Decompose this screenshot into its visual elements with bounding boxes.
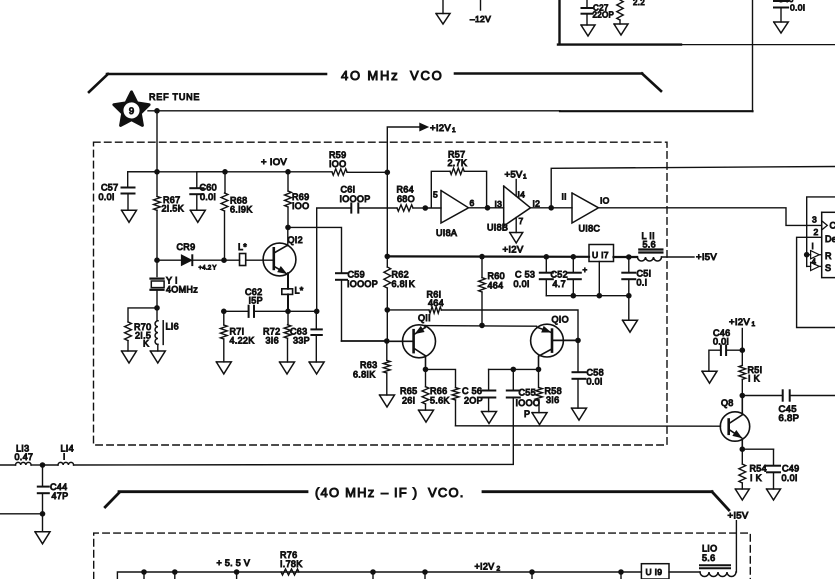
tie wire C53 C52 U17 C51 bbox=[546, 295, 629, 297]
svg-text:5.6: 5.6 bbox=[702, 553, 715, 563]
top solid box left edge bbox=[558, 0, 560, 44]
svg-text:IOO: IOO bbox=[292, 201, 309, 211]
svg-text:C: C bbox=[830, 221, 835, 231]
Q10 emitter bbox=[537, 327, 552, 332]
resistor R58 bbox=[538, 369, 540, 387]
svg-text:C52: C52 bbox=[551, 270, 568, 280]
svg-text:464: 464 bbox=[428, 298, 444, 308]
wire collector to C59 bbox=[288, 227, 342, 272]
svg-text:C 56: C 56 bbox=[462, 386, 482, 396]
svg-text:6.8I K: 6.8I K bbox=[392, 279, 416, 289]
svg-text:4OMHz: 4OMHz bbox=[166, 285, 198, 295]
svg-text:VCO.: VCO. bbox=[428, 485, 465, 500]
svg-text:1: 1 bbox=[752, 321, 756, 328]
svg-text:R66: R66 bbox=[430, 386, 447, 396]
svg-text:LIO: LIO bbox=[702, 544, 717, 554]
Q10 base wire bbox=[552, 339, 578, 341]
regulator U19 bbox=[641, 564, 669, 579]
svg-text:I K: I K bbox=[750, 473, 762, 483]
ground C46 bbox=[702, 371, 717, 383]
regulator U17 bbox=[589, 245, 614, 262]
svg-text:I4: I4 bbox=[518, 190, 526, 200]
resistor R60 bbox=[481, 257, 483, 278]
resistor R70 bbox=[128, 308, 157, 322]
wire vertical x=752 top bbox=[752, 0, 754, 112]
svg-text:REF TUNE: REF TUNE bbox=[149, 92, 200, 102]
svg-text:26I: 26I bbox=[402, 396, 415, 406]
svg-text:IOO: IOO bbox=[329, 159, 346, 169]
wire top right horizontal bbox=[681, 44, 835, 46]
capacitor C63 bbox=[315, 311, 317, 328]
svg-text:+I2V: +I2V bbox=[430, 123, 451, 134]
power pin7 +12V bbox=[515, 218, 517, 233]
ground C27 bbox=[581, 25, 595, 36]
capacitor C52 bbox=[572, 257, 574, 272]
svg-text:R60: R60 bbox=[488, 271, 505, 281]
svg-text:Q8: Q8 bbox=[721, 398, 734, 408]
Q11 emitter bbox=[414, 328, 425, 335]
svg-text:CR9: CR9 bbox=[177, 242, 196, 252]
rail +10V bbox=[128, 171, 332, 173]
svg-text:R62: R62 bbox=[392, 270, 409, 280]
svg-text:7: 7 bbox=[519, 216, 524, 226]
dashed box main VCO bbox=[94, 142, 668, 445]
wire emitter tie bbox=[489, 368, 539, 370]
svg-text:U I9: U I9 bbox=[646, 567, 663, 577]
wire Q12 emitter bbox=[287, 273, 289, 289]
resistor R59 bbox=[332, 169, 347, 175]
svg-text:+: + bbox=[583, 266, 588, 275]
svg-text:22OP: 22OP bbox=[593, 11, 615, 20]
wire R61 row bbox=[387, 309, 429, 311]
transistor Q10 bbox=[531, 324, 564, 357]
capacitor C49 bbox=[742, 448, 773, 450]
svg-text:C 53: C 53 bbox=[515, 270, 535, 280]
ground C56 bbox=[482, 412, 497, 424]
svg-text:IF ): IF ) bbox=[394, 485, 418, 500]
wire U18B out up bbox=[551, 167, 835, 208]
wire C59 to Q11 base node bbox=[342, 340, 387, 342]
svg-text:K: K bbox=[143, 339, 149, 349]
svg-text:–12V: –12V bbox=[470, 14, 491, 24]
svg-text:464: 464 bbox=[488, 281, 504, 291]
wire Q11 base bbox=[387, 340, 414, 342]
svg-text:0.0I: 0.0I bbox=[587, 377, 603, 387]
svg-text:S: S bbox=[825, 263, 831, 273]
svg-text:0.0I: 0.0I bbox=[790, 3, 805, 13]
resistor R63 bbox=[386, 341, 388, 360]
resistor R62 bbox=[384, 267, 391, 288]
wire R61 to Q10 base bbox=[441, 310, 578, 340]
svg-text:C55: C55 bbox=[519, 388, 536, 398]
svg-text:C60: C60 bbox=[200, 183, 217, 193]
crystal Y1 bbox=[156, 260, 158, 276]
svg-text:47P: 47P bbox=[52, 491, 69, 501]
svg-text:LI6: LI6 bbox=[166, 322, 179, 332]
dashed lower box bbox=[94, 533, 751, 579]
svg-text:II: II bbox=[562, 192, 567, 202]
resistor R71 bbox=[223, 311, 225, 325]
svg-text:5.6: 5.6 bbox=[643, 240, 656, 250]
svg-text:UI8A: UI8A bbox=[436, 228, 457, 238]
svg-text:UI8C: UI8C bbox=[579, 224, 601, 234]
svg-text:I K: I K bbox=[748, 374, 760, 384]
svg-text:4.7: 4.7 bbox=[553, 279, 566, 289]
ground C51 bbox=[628, 296, 630, 321]
capacitor C27 bbox=[586, 0, 588, 8]
svg-text:I.78K: I.78K bbox=[280, 559, 303, 569]
ground C57 bbox=[122, 210, 137, 222]
ground L16 bbox=[150, 351, 165, 363]
svg-text:0.0I: 0.0I bbox=[514, 279, 530, 289]
op-amp U18A bbox=[425, 207, 441, 209]
svg-text:R65: R65 bbox=[400, 386, 417, 396]
resistor R68 bbox=[224, 172, 226, 193]
svg-text:(4O MHz: (4O MHz bbox=[315, 485, 375, 500]
wire emitter row Q11-Q10 bbox=[425, 325, 537, 328]
capacitor C53 bbox=[545, 257, 547, 272]
svg-text:IOOOP: IOOOP bbox=[340, 194, 371, 204]
svg-text:IO: IO bbox=[600, 196, 610, 206]
svg-text:1: 1 bbox=[452, 127, 456, 134]
svg-text:L*: L* bbox=[295, 286, 304, 296]
svg-text:QII: QII bbox=[418, 313, 431, 323]
svg-text:+ IOV: + IOV bbox=[261, 157, 287, 168]
svg-text:QIO: QIO bbox=[552, 315, 569, 325]
svg-text:9: 9 bbox=[129, 106, 134, 117]
inductor L16 bbox=[156, 308, 158, 321]
svg-text:R64: R64 bbox=[397, 185, 414, 195]
svg-text:3: 3 bbox=[812, 214, 817, 224]
svg-text:2: 2 bbox=[814, 227, 819, 237]
row C62 C63 bbox=[224, 310, 248, 312]
capacitor C51 bbox=[628, 257, 630, 272]
svg-text:U I7: U I7 bbox=[592, 250, 609, 260]
feedback R57 loop bbox=[431, 171, 450, 207]
wire RS from top right bbox=[807, 197, 835, 267]
svg-text:+I5V: +I5V bbox=[696, 252, 717, 263]
capacitor C57 bbox=[128, 172, 157, 187]
svg-text:+4.2 Y: +4.2 Y bbox=[199, 266, 217, 272]
svg-text:QI2: QI2 bbox=[288, 235, 303, 245]
capacitor C45 bbox=[742, 395, 781, 397]
svg-text:I2: I2 bbox=[533, 199, 541, 209]
capacitor C62 bbox=[248, 306, 250, 317]
svg-text:I3: I3 bbox=[495, 199, 503, 209]
svg-text:C57: C57 bbox=[101, 183, 118, 193]
resistor R67 bbox=[156, 172, 158, 197]
ground C60 bbox=[190, 210, 205, 222]
power +12V1 right bbox=[741, 329, 743, 351]
svg-text:+I2V: +I2V bbox=[475, 562, 495, 572]
title line left bbox=[107, 73, 326, 76]
ground R65 bbox=[419, 410, 434, 422]
svg-text:0.47: 0.47 bbox=[15, 452, 34, 462]
ground C48 bbox=[774, 22, 789, 33]
resistor R54 bbox=[741, 449, 743, 464]
wire Q11 emitter node bbox=[426, 369, 456, 387]
svg-text:C59: C59 bbox=[348, 270, 365, 280]
resistor R61 bbox=[429, 307, 441, 313]
power -12V bbox=[480, 0, 482, 10]
capacitor C61 bbox=[317, 208, 351, 311]
svg-text:VCO: VCO bbox=[410, 68, 444, 83]
wire to Q8 base bbox=[456, 425, 721, 427]
transistor Q8 bbox=[720, 412, 749, 441]
svg-text:0.0I: 0.0I bbox=[99, 192, 115, 202]
wire Q12 collector bbox=[287, 227, 289, 245]
svg-text:68O: 68O bbox=[397, 194, 415, 204]
capacitor C59 bbox=[336, 272, 347, 274]
svg-text:I: I bbox=[63, 453, 66, 462]
ground top left bbox=[442, 0, 444, 14]
svg-text:5: 5 bbox=[433, 190, 438, 200]
svg-text:0.I: 0.I bbox=[637, 278, 648, 288]
Q8 collector bbox=[729, 396, 742, 424]
wire +12V1 stem bbox=[387, 127, 420, 172]
svg-text:2: 2 bbox=[497, 566, 501, 573]
svg-text:5.6K: 5.6K bbox=[430, 396, 450, 406]
top solid box bottom edge bbox=[558, 43, 681, 45]
title line right diagonal bbox=[642, 74, 661, 92]
wire left edge y=514 bbox=[0, 513, 43, 515]
svg-text:1: 1 bbox=[523, 174, 527, 181]
pin 4 Set bbox=[807, 265, 811, 267]
svg-text:6.8P: 6.8P bbox=[779, 413, 800, 424]
wire U18B out bbox=[531, 207, 573, 209]
svg-text:6: 6 bbox=[470, 198, 475, 208]
svg-text:C6I: C6I bbox=[341, 185, 356, 195]
capacitor C46 bbox=[727, 349, 743, 351]
ground C44 bbox=[42, 514, 44, 532]
capacitor C56 bbox=[488, 369, 490, 389]
svg-text:2.7K: 2.7K bbox=[448, 158, 468, 168]
svg-text:R54: R54 bbox=[750, 464, 767, 474]
ground R63 bbox=[380, 395, 395, 407]
svg-text:4.22K: 4.22K bbox=[230, 336, 255, 346]
inductor L* emitter bbox=[282, 289, 293, 295]
bottom rail wire bbox=[117, 572, 641, 579]
inductor L11 bbox=[639, 248, 662, 250]
svg-text:R: R bbox=[825, 251, 832, 261]
inductor L13 bbox=[0, 464, 16, 466]
svg-text:0.0I: 0.0I bbox=[782, 473, 798, 483]
wire U17 bottom bbox=[598, 262, 600, 296]
node 9 REF TUNE star bbox=[114, 92, 149, 126]
flip-flop box right edge bbox=[822, 211, 835, 213]
svg-text:2OP: 2OP bbox=[464, 396, 483, 406]
svg-text:L*: L* bbox=[238, 242, 247, 252]
vertical +12V1 to R62 R63 bbox=[386, 172, 388, 267]
wire +15V down to L10 bbox=[735, 521, 737, 572]
arrow +12V1 bbox=[420, 124, 428, 131]
ground C63 bbox=[309, 362, 324, 374]
inductor L14 bbox=[43, 464, 59, 466]
resistor top box 2.2 bbox=[617, 0, 623, 20]
resistor R72 bbox=[287, 311, 289, 325]
wire pin2 bbox=[797, 237, 835, 327]
wire star down to +10V rail bbox=[156, 111, 158, 172]
ground R58 bbox=[532, 413, 547, 425]
rail +15V heavy bbox=[387, 255, 589, 258]
inductor L* base bbox=[224, 259, 240, 261]
resistor R64 bbox=[397, 205, 413, 211]
resistor R69 bbox=[287, 172, 289, 191]
svg-text:+ 5. 5 V: + 5. 5 V bbox=[217, 558, 251, 568]
svg-text:+5V: +5V bbox=[505, 170, 523, 181]
svg-text:2I.5K: 2I.5K bbox=[162, 204, 185, 214]
ground R70 bbox=[122, 351, 137, 363]
svg-text:4O MHz: 4O MHz bbox=[341, 68, 399, 83]
capacitor C44 bbox=[42, 465, 44, 485]
svg-text:I5P: I5P bbox=[249, 296, 263, 306]
svg-text:I: I bbox=[812, 242, 815, 251]
label (40 MHz - IF) VCO bbox=[105, 492, 119, 507]
capacitor C55 bbox=[512, 369, 514, 389]
svg-text:IOOOP: IOOOP bbox=[347, 279, 378, 289]
svg-text:UI8B: UI8B bbox=[487, 223, 508, 233]
ground C49 bbox=[767, 489, 781, 500]
wire REF TUNE bbox=[148, 110, 560, 112]
svg-text:P: P bbox=[524, 409, 530, 419]
Q11 collector bbox=[414, 348, 426, 369]
svg-text:+I2V: +I2V bbox=[503, 245, 524, 256]
svg-text:R63: R63 bbox=[360, 360, 377, 370]
Q10 collector bbox=[539, 349, 552, 369]
svg-text:3I6: 3I6 bbox=[546, 395, 559, 405]
svg-text:De: De bbox=[825, 234, 835, 244]
pin 1 Reset bbox=[807, 254, 811, 256]
svg-text:C49: C49 bbox=[782, 464, 799, 474]
inductor L10 bbox=[700, 564, 730, 566]
resistor R66 bbox=[452, 388, 459, 400]
svg-text:+I2V: +I2V bbox=[729, 317, 750, 328]
ground R71 bbox=[216, 362, 231, 374]
svg-text:6.I9K: 6.I9K bbox=[230, 205, 253, 215]
wire U18C out bbox=[599, 208, 822, 226]
resistor R65 bbox=[425, 369, 427, 386]
svg-text:33P: 33P bbox=[293, 336, 310, 346]
title line left diagonal bbox=[89, 74, 108, 92]
svg-text:4: 4 bbox=[812, 258, 817, 267]
Q8 emitter bbox=[729, 430, 741, 438]
op-amp U18C bbox=[572, 193, 599, 223]
transistor Q11 bbox=[403, 325, 436, 358]
ground R54 bbox=[735, 489, 749, 500]
svg-text:+I5V: +I5V bbox=[728, 511, 749, 522]
ground C58 bbox=[572, 408, 587, 420]
ground R72 bbox=[280, 362, 295, 374]
wire U18A out bbox=[469, 207, 504, 209]
diode CR9 bbox=[157, 259, 182, 261]
svg-text:2.2: 2.2 bbox=[633, 0, 645, 7]
svg-text:0.0I: 0.0I bbox=[200, 192, 216, 202]
svg-text:0.0I: 0.0I bbox=[713, 337, 729, 347]
svg-text:3I6: 3I6 bbox=[266, 336, 279, 346]
resistor R51 bbox=[741, 379, 743, 395]
clock wedge pin 3 bbox=[822, 221, 828, 230]
ground top resistor bbox=[614, 24, 628, 35]
svg-text:6.8IK: 6.8IK bbox=[353, 370, 376, 380]
capacitor C60 bbox=[197, 172, 225, 187]
power +5V1 bbox=[515, 180, 517, 197]
title line right bbox=[455, 72, 642, 75]
svg-text:–: – bbox=[381, 485, 389, 500]
capacitor C58 bbox=[577, 340, 579, 371]
resistor R76 bbox=[281, 569, 299, 575]
transistor Q12 bbox=[263, 243, 296, 276]
op-amp U18B bbox=[504, 186, 531, 226]
